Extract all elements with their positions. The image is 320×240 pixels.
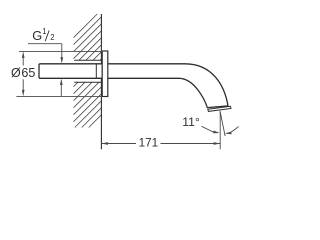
arrow 11deg right bbox=[225, 132, 232, 135]
arrow 11deg left bbox=[213, 131, 220, 134]
arrow G1/2 top bbox=[60, 57, 63, 64]
arc arrow bbox=[227, 126, 239, 133]
svg-text:1: 1 bbox=[42, 27, 46, 36]
outlet axis 11 deg line bbox=[220, 111, 225, 136]
svg-text:171: 171 bbox=[139, 136, 159, 149]
svg-text:11°: 11° bbox=[182, 115, 200, 129]
G1/2 leader bbox=[28, 44, 62, 97]
arrow G1/2 bottom bbox=[60, 79, 63, 86]
wire wall face / extension line bbox=[100, 14, 102, 149]
flange bbox=[102, 51, 108, 97]
svg-text:2: 2 bbox=[50, 33, 54, 42]
dimension 171 bbox=[101, 143, 220, 145]
dimension D65 extension lines bbox=[16, 51, 102, 96]
arrow D65 top bbox=[22, 51, 25, 58]
spout bbox=[107, 64, 228, 108]
arrow 171 right bbox=[214, 142, 221, 145]
wall hole bbox=[74, 60, 101, 82]
svg-text:65: 65 bbox=[21, 66, 35, 80]
extension line vertical at spout tip bbox=[219, 112, 221, 150]
wall bbox=[74, 14, 102, 128]
svg-text:Ø: Ø bbox=[11, 66, 21, 80]
arrow 171 left bbox=[101, 142, 108, 145]
arrow D65 bottom bbox=[22, 90, 25, 97]
pipe bbox=[39, 64, 102, 79]
leader 11deg bbox=[202, 126, 217, 133]
outlet cap bbox=[208, 106, 231, 111]
svg-text:G: G bbox=[32, 28, 42, 43]
